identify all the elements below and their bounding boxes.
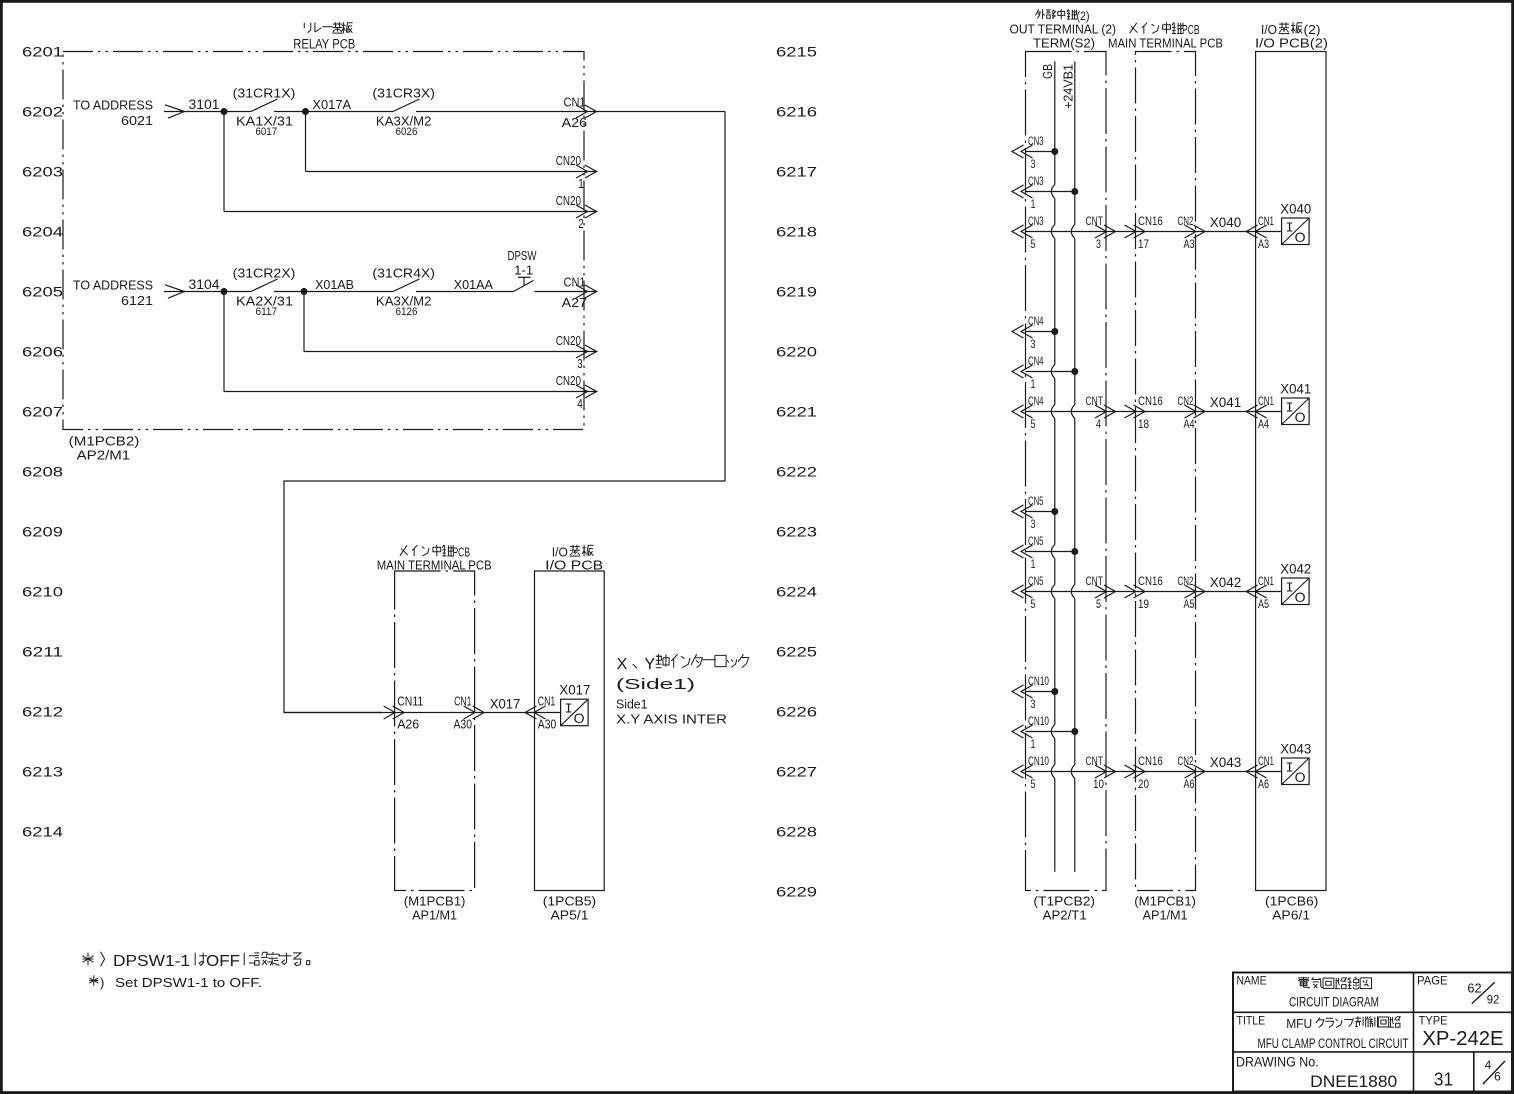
svg-text:1-1: 1-1 — [514, 263, 533, 278]
svg-text:I: I — [1285, 581, 1293, 597]
svg-text:6229: 6229 — [776, 884, 817, 900]
out terminal bottom label (T1PCB2) AP2/T1 — [1033, 894, 1095, 923]
svg-text:X01AB: X01AB — [315, 277, 354, 292]
svg-text:AP1/M1: AP1/M1 — [1143, 908, 1188, 923]
connector CN4 pin 5 signal row — [1012, 394, 1282, 431]
svg-text:10: 10 — [1093, 777, 1104, 791]
svg-text:AP5/1: AP5/1 — [551, 908, 589, 923]
switch DPSW 1-1 — [508, 248, 538, 292]
svg-text:(1PCB6): (1PCB6) — [1265, 894, 1318, 909]
I/O module X017 — [559, 683, 590, 727]
title block frame — [1233, 973, 1512, 1092]
svg-text:6223: 6223 — [776, 524, 817, 540]
wire CN20 pin1 row — [306, 171, 598, 173]
connector CN16 pin 19 into main terminal — [1125, 574, 1163, 611]
svg-text:6121: 6121 — [121, 293, 153, 308]
I/O PCB box (1PCB5) AP5/1 — [535, 571, 605, 891]
connector CN1 pin A6 into I/O PCB(2) — [1246, 754, 1274, 791]
connector CN3 pin 5 signal row — [1012, 214, 1282, 251]
svg-text:CN10: CN10 — [1028, 714, 1049, 728]
title block sheet 4/6 — [1483, 1058, 1505, 1084]
svg-text:CN1: CN1 — [1258, 754, 1274, 768]
svg-text:4: 4 — [577, 396, 583, 411]
svg-text:CN2: CN2 — [1178, 214, 1194, 228]
svg-text:6021: 6021 — [121, 113, 153, 128]
line number column 6215-6229 — [776, 44, 817, 900]
svg-text:X017: X017 — [559, 683, 590, 698]
connector CN1 A30 out of main terminal pcb — [454, 694, 485, 732]
svg-text:X040: X040 — [1280, 202, 1311, 217]
connector CN20 pin 3 — [556, 333, 597, 371]
svg-text:3: 3 — [577, 356, 583, 371]
svg-text:6204: 6204 — [22, 224, 63, 240]
line number column 6201-6214 — [22, 44, 63, 840]
title block NAME 電気回路線図 CIRCUIT DIAGRAM — [1237, 974, 1380, 1010]
svg-text:3101: 3101 — [189, 97, 220, 112]
title block TITLE MFUクランプ制御回路 MFU CLAMP CONTROL CIRCUIT — [1237, 1013, 1409, 1051]
connector CNT pin 10 out of terminal — [1086, 754, 1116, 791]
wire CN20 pin3 row — [304, 351, 598, 353]
svg-text:CN1: CN1 — [564, 95, 586, 110]
svg-text:TITLE: TITLE — [1237, 1013, 1266, 1027]
svg-text:6226: 6226 — [776, 704, 817, 720]
svg-text:CN5: CN5 — [1028, 574, 1044, 588]
svg-text:4: 4 — [1096, 417, 1101, 431]
relay PCB bottom label (M1PCB2) AP2/M1 — [69, 434, 140, 463]
wire rung2 input to contact1 — [185, 291, 251, 293]
svg-text:6225: 6225 — [776, 644, 817, 660]
svg-text:CN1: CN1 — [1258, 394, 1274, 408]
connector CN16 pin 18 into main terminal — [1125, 394, 1163, 431]
connector CN10 pin 5 signal row — [1012, 754, 1282, 791]
svg-text:6212: 6212 — [22, 704, 63, 720]
svg-text:AP2/M1: AP2/M1 — [77, 448, 131, 463]
svg-text:CN1: CN1 — [454, 694, 471, 709]
svg-text:I/O PCB: I/O PCB — [545, 558, 603, 573]
relay contact (31CR3X) KA3X/M2 6026 — [372, 86, 435, 139]
svg-text:OUT TERMINAL (2): OUT TERMINAL (2) — [1010, 22, 1117, 37]
wire CN20 pin2 row — [224, 211, 598, 213]
svg-text:(T1PCB2): (T1PCB2) — [1033, 894, 1095, 909]
svg-text:CN1: CN1 — [1258, 214, 1274, 228]
wire vertical from junction rung1-B down to CN20-1 — [305, 112, 307, 172]
svg-text:CNT: CNT — [1086, 214, 1104, 228]
svg-text:6222: 6222 — [776, 464, 817, 480]
svg-text:(M1PCB1): (M1PCB1) — [404, 894, 466, 909]
svg-text:1: 1 — [1031, 197, 1036, 211]
svg-text:19: 19 — [1138, 597, 1149, 611]
I/O module X042 — [1280, 562, 1311, 606]
svg-text:I/O PCB(2): I/O PCB(2) — [1255, 36, 1328, 51]
svg-text:6220: 6220 — [776, 344, 817, 360]
svg-text:X041: X041 — [1280, 382, 1311, 397]
svg-text:Side1: Side1 — [616, 697, 648, 712]
svg-text:(31CR2X): (31CR2X) — [233, 266, 296, 281]
svg-text:CN4: CN4 — [1028, 354, 1044, 368]
I/O module X040 — [1280, 202, 1311, 246]
svg-text:6207: 6207 — [22, 404, 63, 420]
svg-text:PAGE: PAGE — [1417, 973, 1448, 987]
title block TYPE XP-242E — [1419, 1013, 1504, 1049]
svg-text:6228: 6228 — [776, 824, 817, 840]
svg-text:A6: A6 — [1258, 777, 1269, 791]
svg-text:6215: 6215 — [776, 44, 817, 60]
svg-text:20: 20 — [1138, 777, 1149, 791]
svg-text:AP1/M1: AP1/M1 — [412, 908, 457, 923]
svg-text:+24VB1: +24VB1 — [1061, 64, 1076, 109]
svg-text:OFF: OFF — [206, 953, 240, 970]
svg-text:5: 5 — [1096, 597, 1101, 611]
connector CN2 pin A5 out of main terminal — [1178, 574, 1206, 611]
I/O PCB(2) box (1PCB6) AP6/1 — [1256, 52, 1326, 891]
svg-text:(31CR3X): (31CR3X) — [372, 86, 435, 101]
svg-text:TO ADDRESS: TO ADDRESS — [73, 98, 153, 113]
wire vertical from junction rung2-A down to CN20-4 — [223, 292, 225, 392]
svg-text:CN16: CN16 — [1138, 394, 1163, 408]
svg-text:A26: A26 — [397, 717, 419, 732]
title block DRAWING No. DNEE1880 — [1236, 1054, 1397, 1091]
svg-text:6201: 6201 — [22, 44, 63, 60]
svg-text:3: 3 — [1031, 157, 1036, 171]
svg-text:X: X — [617, 656, 628, 673]
svg-text:CN4: CN4 — [1028, 394, 1044, 408]
wire through main terminal pcb X017 row — [284, 712, 561, 714]
I/O PCB(2) bottom label (1PCB6) AP6/1 — [1265, 894, 1318, 923]
wire vertical from junction rung2-B down to CN20-3 — [303, 292, 305, 352]
svg-text:O: O — [574, 710, 585, 726]
svg-text:6206: 6206 — [22, 344, 63, 360]
svg-text:A3: A3 — [1258, 237, 1269, 251]
connector CN10 pin 3 to GB — [1012, 674, 1058, 711]
svg-text:6210: 6210 — [22, 584, 63, 600]
svg-text:MAIN TERMINAL PCB: MAIN TERMINAL PCB — [1108, 36, 1223, 51]
svg-text:CNT: CNT — [1086, 574, 1104, 588]
svg-text:O: O — [1295, 769, 1306, 785]
svg-text:X01AA: X01AA — [454, 277, 494, 292]
svg-text:6211: 6211 — [22, 644, 63, 660]
wire rung2 node X01AA to switch — [416, 277, 514, 292]
svg-text:NAME: NAME — [1237, 974, 1267, 988]
connector CN2 pin A4 out of main terminal — [1178, 394, 1206, 431]
connector CN3 pin 3 to GB — [1012, 134, 1058, 171]
svg-text:O: O — [1295, 229, 1306, 245]
junction dot rung1-B — [302, 108, 309, 115]
svg-text:3: 3 — [1096, 237, 1101, 251]
out terminal box (T1PCB2) AP2/T1 TERM(S2) — [1026, 52, 1107, 891]
svg-text:6216: 6216 — [776, 104, 817, 120]
svg-text:CN4: CN4 — [1028, 314, 1044, 328]
svg-text:6218: 6218 — [776, 224, 817, 240]
svg-text:AP2/T1: AP2/T1 — [1043, 908, 1087, 923]
connector CN5 pin 3 to GB — [1012, 494, 1058, 531]
svg-text:3: 3 — [1031, 517, 1036, 531]
out terminal header 外部中継(2) OUT TERMINAL (2) TERM(S2) — [1010, 9, 1117, 50]
svg-text:CN10: CN10 — [1028, 754, 1049, 768]
I/O PCB header I/O基板 I/O PCB — [545, 545, 603, 573]
connector CN10 pin 1 to +24VB1 — [1012, 714, 1078, 751]
svg-text:I: I — [564, 702, 572, 718]
svg-text:CN3: CN3 — [1028, 174, 1044, 188]
svg-text:AP6/1: AP6/1 — [1272, 908, 1310, 923]
svg-text:6117: 6117 — [256, 306, 278, 318]
svg-text:CNT: CNT — [1086, 754, 1104, 768]
title block PAGE 62/92 — [1417, 973, 1500, 1006]
svg-text:MFU CLAMP CONTROL CIRCUIT: MFU CLAMP CONTROL CIRCUIT — [1258, 1036, 1409, 1051]
svg-text:3: 3 — [1031, 337, 1036, 351]
connector CN1 pin A4 into I/O PCB(2) — [1246, 394, 1274, 431]
svg-text:A26: A26 — [562, 115, 587, 130]
connector CN1 pin A3 into I/O PCB(2) — [1246, 214, 1274, 251]
svg-text:CN20: CN20 — [556, 333, 581, 348]
svg-text:GB: GB — [1040, 64, 1055, 79]
interlock note X、Y軸インターロック (Side1) — [616, 654, 749, 693]
power bus GB — [1040, 61, 1055, 872]
svg-text:4: 4 — [1485, 1058, 1492, 1072]
svg-text:X042: X042 — [1210, 575, 1241, 590]
main terminal right header メイン中継PCB MAIN TERMINAL PCB — [1108, 22, 1223, 51]
svg-text:31: 31 — [1434, 1070, 1453, 1090]
wire switch to connector CN1 A27 — [535, 291, 598, 293]
svg-text:A30: A30 — [454, 717, 473, 732]
svg-text:Set DPSW1-1 to OFF.: Set DPSW1-1 to OFF. — [115, 975, 262, 990]
svg-text:6203: 6203 — [22, 164, 63, 180]
svg-text:CN5: CN5 — [1028, 494, 1044, 508]
svg-text:6026: 6026 — [396, 126, 418, 138]
svg-text:CN2: CN2 — [1178, 574, 1194, 588]
interlock note Side1 X.Y AXIS INTER — [616, 697, 727, 727]
svg-text:1: 1 — [578, 176, 584, 191]
svg-text:6202: 6202 — [22, 104, 63, 120]
svg-text:X043: X043 — [1210, 755, 1241, 770]
connector CN20 pin 1 — [556, 153, 597, 191]
svg-text:6214: 6214 — [22, 824, 63, 840]
main terminal PCB bottom label (M1PCB1) AP1/M1 — [404, 894, 466, 923]
svg-text:XP-242E: XP-242E — [1422, 1028, 1503, 1050]
svg-text:18: 18 — [1138, 417, 1149, 431]
svg-text:(31CR1X): (31CR1X) — [233, 86, 296, 101]
svg-text:O: O — [1295, 589, 1306, 605]
svg-text:DPSW: DPSW — [508, 248, 538, 263]
relay contact (31CR4X) KA3X/M2 6126 — [372, 266, 435, 319]
svg-text:X.Y AXIS INTER: X.Y AXIS INTER — [616, 712, 727, 727]
svg-text:6213: 6213 — [22, 764, 63, 780]
wire rung2 contact1 to contact2, node X01AB — [274, 277, 393, 292]
svg-text:O: O — [1295, 409, 1306, 425]
main terminal PCB(right) box (M1PCB1) AP1/M1 — [1136, 52, 1196, 891]
svg-text:5: 5 — [1031, 237, 1036, 251]
svg-text:6219: 6219 — [776, 284, 817, 300]
svg-text:A5: A5 — [1184, 597, 1195, 611]
connector CNT pin 5 out of terminal — [1086, 574, 1116, 611]
svg-text:CN20: CN20 — [556, 193, 581, 208]
connector CN20 pin 2 — [556, 193, 597, 231]
svg-text:TO ADDRESS: TO ADDRESS — [73, 278, 153, 293]
main terminal right bottom label (M1PCB1) AP1/M1 — [1134, 894, 1196, 923]
svg-text:X017: X017 — [490, 697, 521, 712]
svg-text:I: I — [1285, 401, 1293, 417]
svg-text:5: 5 — [1031, 597, 1036, 611]
wire interconnect CN1 A26 to CN11 A26 — [284, 112, 725, 713]
svg-text:6205: 6205 — [22, 284, 63, 300]
svg-text:6209: 6209 — [22, 524, 63, 540]
svg-text:MAIN TERMINAL PCB: MAIN TERMINAL PCB — [377, 558, 492, 573]
svg-text:(31CR4X): (31CR4X) — [372, 266, 435, 281]
wire rung1 input to contact1 — [185, 111, 251, 113]
connector CN4 pin 1 to +24VB1 — [1012, 354, 1078, 391]
power bus +24VB1 — [1061, 61, 1076, 872]
svg-text:6217: 6217 — [776, 164, 817, 180]
svg-text:6227: 6227 — [776, 764, 817, 780]
svg-text:62: 62 — [1467, 981, 1481, 996]
svg-text:1: 1 — [1031, 557, 1036, 571]
connector CN1 pin A5 into I/O PCB(2) — [1246, 574, 1274, 611]
relay PCB title リレー基板 RELAY PCB — [293, 22, 355, 51]
I/O module X041 — [1280, 382, 1311, 426]
relay PCB board outline (M1PCB2) AP2/M1 — [63, 52, 584, 430]
svg-text:(Side1): (Side1) — [616, 677, 695, 693]
connector CN5 pin 1 to +24VB1 — [1012, 534, 1078, 571]
svg-text:RELAY PCB: RELAY PCB — [293, 37, 355, 52]
svg-text:92: 92 — [1487, 993, 1500, 1007]
svg-text:CN1: CN1 — [564, 275, 586, 290]
relay contact (31CR2X) KA2X/31 6117 — [233, 266, 296, 319]
svg-text:CIRCUIT DIAGRAM: CIRCUIT DIAGRAM — [1289, 994, 1379, 1010]
connector CN3 pin 1 to +24VB1 — [1012, 174, 1078, 211]
svg-text:CN3: CN3 — [1028, 134, 1044, 148]
svg-text:1: 1 — [1031, 377, 1036, 391]
main terminal PCB box (M1PCB1) AP1/M1 — [395, 571, 475, 891]
svg-text:6221: 6221 — [776, 404, 817, 420]
note japanese DPSW1-1 set to OFF — [82, 952, 309, 970]
connector CN1 A26 relay output — [562, 95, 597, 131]
relay contact (31CR1X) KA1X/31 6017 — [233, 86, 296, 139]
svg-text:A3: A3 — [1184, 237, 1195, 251]
connector CN1 A30 into I/O pcb — [525, 694, 556, 732]
svg-text:A27: A27 — [562, 295, 587, 310]
svg-text:CN2: CN2 — [1178, 394, 1194, 408]
svg-text:A6: A6 — [1184, 777, 1195, 791]
svg-text:X043: X043 — [1280, 742, 1311, 757]
svg-text:3104: 3104 — [189, 277, 220, 292]
connector CN2 pin A3 out of main terminal — [1178, 214, 1206, 251]
svg-text:CN16: CN16 — [1138, 574, 1163, 588]
svg-text:CNT: CNT — [1086, 394, 1104, 408]
svg-text:6126: 6126 — [396, 306, 418, 318]
svg-text:CN1: CN1 — [1258, 574, 1274, 588]
svg-text:DRAWING No.: DRAWING No. — [1236, 1054, 1319, 1069]
junction dot rung1-A — [221, 108, 228, 115]
main terminal PCB header メイン中継PCB MAIN TERMINAL PCB — [377, 545, 492, 573]
svg-text:CN16: CN16 — [1138, 754, 1163, 768]
svg-text:1: 1 — [1031, 737, 1036, 751]
svg-text:TYPE: TYPE — [1419, 1013, 1448, 1027]
connector CN2 pin A6 out of main terminal — [1178, 754, 1206, 791]
svg-text:CN10: CN10 — [1028, 674, 1049, 688]
svg-text:DPSW1-1: DPSW1-1 — [113, 953, 190, 970]
svg-text:CN11: CN11 — [397, 694, 423, 709]
svg-text:5: 5 — [1031, 417, 1036, 431]
svg-text:CN3: CN3 — [1028, 214, 1044, 228]
svg-text:X041: X041 — [1210, 395, 1241, 410]
svg-text:6208: 6208 — [22, 464, 63, 480]
svg-text:TERM(S2): TERM(S2) — [1033, 36, 1095, 51]
junction dot rung2-A — [221, 288, 228, 295]
connector CN1 A27 relay output — [562, 275, 597, 311]
svg-text:6: 6 — [1494, 1070, 1501, 1084]
svg-text:(M1PCB1): (M1PCB1) — [1134, 894, 1196, 909]
node 3104 input from address 6121 — [73, 277, 220, 308]
svg-text:CN2: CN2 — [1178, 754, 1194, 768]
svg-text:A4: A4 — [1258, 417, 1269, 431]
svg-text:X017A: X017A — [312, 97, 351, 112]
svg-text:2: 2 — [578, 216, 584, 231]
svg-text:17: 17 — [1138, 237, 1149, 251]
svg-text:5: 5 — [1031, 777, 1036, 791]
svg-text:A4: A4 — [1184, 417, 1195, 431]
svg-text:3: 3 — [1031, 697, 1036, 711]
wire rung1 contact1 to contact2, node X017A — [274, 97, 393, 112]
connector CN16 pin 20 into main terminal — [1125, 754, 1163, 791]
svg-text:(1PCB5): (1PCB5) — [543, 894, 596, 909]
connector CN11 A26 into main terminal pcb — [384, 694, 424, 732]
svg-text:A5: A5 — [1258, 597, 1269, 611]
svg-text:A30: A30 — [538, 717, 557, 732]
svg-text:6224: 6224 — [776, 584, 817, 600]
svg-text:CN5: CN5 — [1028, 534, 1044, 548]
svg-text:6017: 6017 — [256, 126, 278, 138]
svg-text:CN20: CN20 — [556, 373, 581, 388]
svg-text:(M1PCB2): (M1PCB2) — [69, 434, 140, 449]
svg-text:CN20: CN20 — [556, 153, 581, 168]
node 3101 input from address 6021 — [73, 97, 220, 128]
svg-text:DNEE1880: DNEE1880 — [1310, 1072, 1397, 1091]
connector CN5 pin 5 signal row — [1012, 574, 1282, 611]
I/O PCB bottom label (1PCB5) AP5/1 — [543, 894, 596, 923]
svg-text:X042: X042 — [1280, 562, 1311, 577]
wire vertical from junction rung1-A down to CN20-2 — [223, 112, 225, 212]
I/O PCB(2) header I/O基板(2) I/O PCB(2) — [1255, 22, 1328, 51]
svg-text:I: I — [1285, 221, 1293, 237]
connector CN16 pin 17 into main terminal — [1125, 214, 1163, 251]
connector CN4 pin 3 to GB — [1012, 314, 1058, 351]
svg-text:Y: Y — [645, 656, 656, 673]
svg-text:MFU: MFU — [1286, 1016, 1312, 1031]
connector CNT pin 3 out of terminal — [1086, 214, 1116, 251]
svg-text:X040: X040 — [1210, 215, 1241, 230]
junction dot rung2-B — [301, 288, 308, 295]
I/O module X043 — [1280, 742, 1311, 786]
note english Set DPSW1-1 to OFF — [89, 975, 262, 990]
wire rung1 to connector CN1 pin A26 — [416, 111, 725, 113]
svg-text:CN16: CN16 — [1138, 214, 1163, 228]
connector CNT pin 4 out of terminal — [1086, 394, 1116, 431]
svg-text:): ) — [100, 975, 104, 990]
svg-text:CN1: CN1 — [538, 694, 555, 709]
wire CN20 pin4 row — [224, 391, 598, 393]
svg-text:I: I — [1285, 761, 1293, 777]
connector CN20 pin 4 — [556, 373, 597, 411]
